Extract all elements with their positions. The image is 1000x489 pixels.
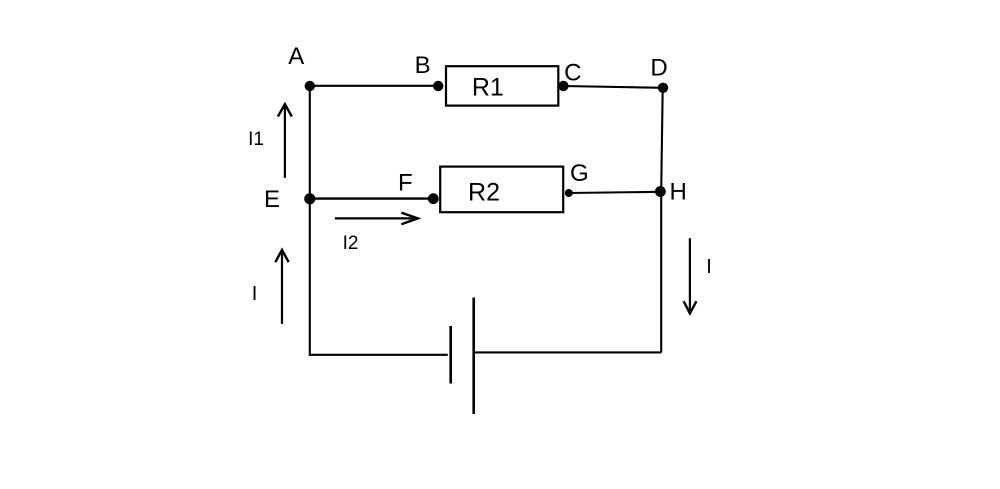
svg-text:R2: R2 xyxy=(468,178,500,206)
node C xyxy=(558,81,568,91)
node E xyxy=(304,193,315,204)
current arrow I (left branch) xyxy=(275,250,288,324)
svg-text:C: C xyxy=(564,60,581,87)
node D xyxy=(658,83,668,93)
node A xyxy=(305,81,315,91)
svg-text:D: D xyxy=(650,55,667,82)
node H xyxy=(655,186,666,197)
current arrow I (right branch) xyxy=(684,238,697,313)
svg-text:I: I xyxy=(252,283,258,305)
current arrow I1 xyxy=(278,104,292,178)
wire battery to bottom-right xyxy=(475,351,661,353)
svg-text:R1: R1 xyxy=(472,73,504,101)
resistor R2 xyxy=(440,167,563,213)
wire D-H (right vertical upper) xyxy=(661,88,663,192)
svg-text:I2: I2 xyxy=(343,233,359,254)
node F xyxy=(428,193,439,204)
resistor R1 xyxy=(446,66,558,105)
battery V1 xyxy=(451,298,474,415)
svg-text:F: F xyxy=(398,170,413,197)
wire bottom-left to battery xyxy=(309,354,448,356)
svg-text:A: A xyxy=(288,43,304,70)
wire E-F xyxy=(310,197,434,199)
node G xyxy=(565,189,573,197)
current arrow I2 xyxy=(335,213,418,225)
wire A-E (left vertical) xyxy=(309,86,311,199)
wire G-H xyxy=(569,192,661,193)
svg-text:H: H xyxy=(670,179,687,206)
svg-text:I1: I1 xyxy=(248,129,264,150)
svg-text:B: B xyxy=(415,52,431,79)
wire E to bottom-left corner xyxy=(309,199,311,356)
svg-text:I: I xyxy=(706,256,712,278)
wire H to bottom-right corner xyxy=(660,192,662,353)
wire C-D xyxy=(563,86,663,88)
svg-text:E: E xyxy=(264,186,280,213)
node B xyxy=(433,81,443,91)
svg-text:G: G xyxy=(570,160,589,187)
wire A-B xyxy=(310,85,438,87)
